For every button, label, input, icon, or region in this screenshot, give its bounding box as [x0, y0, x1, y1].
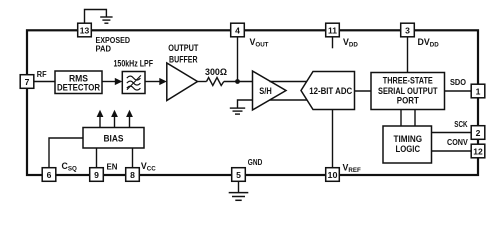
wire serial port to timing logic right [414, 110, 416, 127]
ground G2 (S/H input) [230, 108, 245, 114]
ground G3 (pin5 GND) [229, 193, 249, 201]
wire exposed pad to ground [85, 10, 107, 27]
wire ADC to pin10 VREF [332, 110, 334, 168]
svg-text:VOUT: VOUT [250, 37, 269, 49]
pin 6 [42, 168, 56, 182]
wire pin11 stub [332, 37, 334, 48]
svg-text:VCC: VCC [141, 161, 156, 173]
svg-text:4: 4 [235, 25, 240, 35]
ground G1 (exposed pad) [100, 17, 112, 23]
pin 13 [78, 23, 92, 37]
pin 11 [326, 23, 340, 37]
wire resistor to S/H [224, 81, 253, 83]
bus wire S/H to ADC bottom [270, 99, 308, 101]
resistor R 300ohm [207, 78, 224, 86]
svg-text:2: 2 [476, 128, 481, 138]
svg-text:CSQ: CSQ [62, 161, 77, 173]
12-bit ADC block [301, 72, 355, 110]
wire RMS detector to LPF with arrow [102, 81, 116, 83]
svg-text:9: 9 [94, 170, 99, 180]
svg-text:150kHz LPF: 150kHz LPF [114, 59, 154, 69]
pin 4 [231, 23, 245, 37]
pin 10 [326, 168, 340, 182]
label EXPOSED PAD [96, 35, 131, 54]
svg-text:300Ω: 300Ω [205, 67, 227, 77]
svg-text:12-BIT ADC: 12-BIT ADC [309, 86, 352, 96]
wire SCK [432, 132, 472, 134]
svg-text:11: 11 [328, 25, 337, 35]
bias arrow 1 [97, 110, 104, 128]
svg-text:10: 10 [328, 170, 338, 180]
svg-text:1: 1 [476, 86, 481, 96]
wire pin9 to BIAS [96, 148, 98, 168]
svg-text:SDO: SDO [450, 77, 466, 87]
svg-text:VDD: VDD [343, 37, 358, 49]
three-state serial output port block U2 [371, 73, 445, 110]
wire pin8 to BIAS [132, 148, 134, 168]
chip outline [27, 30, 478, 175]
wire S/H lower input [238, 100, 253, 108]
wire pin4 to junction [237, 37, 239, 82]
svg-text:PAD: PAD [96, 44, 112, 54]
svg-text:RF: RF [37, 69, 47, 79]
svg-text:7: 7 [25, 77, 30, 87]
svg-text:TIMING: TIMING [394, 134, 423, 144]
svg-text:DETECTOR: DETECTOR [57, 82, 100, 92]
svg-text:6: 6 [47, 170, 52, 180]
svg-text:8: 8 [130, 170, 135, 180]
wire buffer to resistor [198, 81, 207, 83]
svg-text:13: 13 [80, 25, 90, 35]
wire SDO [445, 90, 472, 92]
svg-text:VREF: VREF [343, 163, 361, 175]
svg-text:PORT: PORT [397, 96, 419, 106]
svg-text:5: 5 [236, 170, 241, 180]
pin 9 [90, 168, 104, 182]
RMS detector block [55, 71, 102, 94]
timing logic block U3 [383, 126, 432, 163]
bias arrow 3 [126, 110, 133, 128]
junction node VOUT [235, 79, 240, 84]
wire pin5 to ground [238, 182, 240, 193]
S/H block [253, 71, 287, 110]
svg-text:CONV: CONV [447, 137, 468, 147]
wire BIAS to pin6 [49, 138, 83, 168]
LPF filter block [122, 72, 145, 94]
wire serial port to timing logic left [400, 110, 402, 127]
pin 3 [401, 23, 415, 37]
pin 7 [20, 75, 34, 89]
wire ADC to serial port [355, 90, 372, 92]
svg-text:OUTPUT: OUTPUT [168, 43, 198, 53]
wire pin3 to serial port [407, 37, 409, 73]
svg-text:BUFFER: BUFFER [169, 54, 198, 64]
svg-text:LOGIC: LOGIC [396, 144, 421, 154]
op-amp output buffer [167, 63, 198, 101]
pin 1 [471, 84, 485, 98]
svg-text:GND: GND [248, 157, 262, 167]
pin 8 [126, 168, 140, 182]
svg-text:THREE-STATE: THREE-STATE [383, 76, 433, 86]
bus wire S/H to ADC top [270, 81, 308, 83]
svg-text:12: 12 [473, 146, 483, 156]
pin 5 [232, 168, 246, 182]
svg-text:EN: EN [107, 162, 118, 172]
svg-text:S/H: S/H [259, 86, 272, 96]
svg-text:DVDD: DVDD [418, 37, 440, 49]
wire pin7 to RMS detector [34, 81, 55, 83]
svg-text:3: 3 [405, 25, 410, 35]
svg-text:BIAS: BIAS [104, 134, 124, 144]
pin 2 [471, 126, 485, 140]
wire LPF to output buffer with arrow [145, 81, 161, 83]
svg-text:SCK: SCK [454, 119, 468, 129]
svg-text:SERIAL OUTPUT: SERIAL OUTPUT [378, 86, 438, 96]
pin 12 [471, 144, 485, 158]
wire CONV [432, 150, 472, 152]
bias arrow 2 [111, 110, 118, 128]
BIAS block [83, 128, 144, 149]
